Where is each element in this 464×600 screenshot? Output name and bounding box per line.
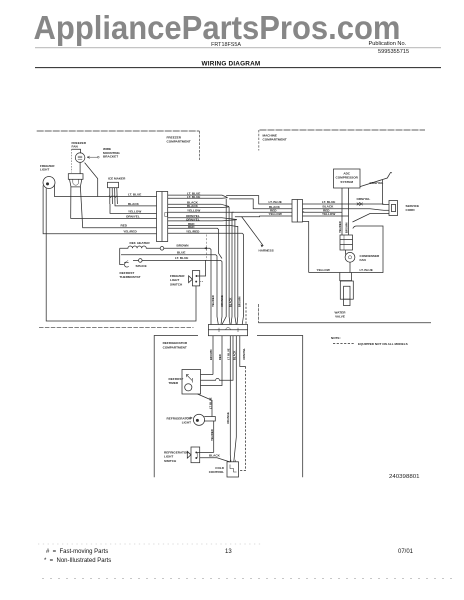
svg-text:FAN: FAN (72, 145, 79, 149)
svg-text:* = Non-Illustrated Parts: * = Non-Illustrated Parts (44, 558, 111, 564)
wire RED to machine bus (232, 211, 292, 213)
compressor motor / condenser fan circle (345, 252, 355, 262)
svg-text:240398801: 240398801 (389, 474, 420, 480)
wire ice maker to YELLOW row (110, 204, 157, 213)
svg-text:YEL/RED: YEL/RED (210, 429, 214, 441)
freezer light switch (192, 271, 199, 286)
refrigerator compartment box left part (154, 336, 198, 478)
machine bus connector J2 (292, 200, 303, 223)
wire water circuit drop jog (240, 336, 246, 367)
svg-text:CORD: CORD (406, 208, 416, 212)
wire ORN/YEL pair right of J1 (168, 218, 237, 220)
svg-text:COMPARTMENT: COMPARTMENT (167, 140, 191, 144)
wire freezer light switch loop left (46, 188, 196, 321)
svg-text:ADC: ADC (343, 171, 350, 175)
svg-text:YELLOW: YELLOW (317, 268, 330, 272)
footer faint scan line (42, 578, 452, 580)
wire YEL/RED right of J1 (168, 233, 243, 324)
machine compartment border left stub (258, 130, 260, 151)
svg-text:ORN/YEL: ORN/YEL (357, 197, 371, 201)
heading rule under WIRING DIAGRAM (35, 67, 441, 69)
svg-text:VALVE: VALVE (335, 315, 345, 319)
svg-text:NOTE:: NOTE: (331, 336, 341, 340)
svg-text:HARNESS: HARNESS (259, 249, 274, 253)
wire LT BLUE pair right of J1 (168, 195, 228, 197)
freezer border dashed fragment (206, 235, 208, 261)
compressor relay overload (340, 235, 353, 250)
compressor system box (334, 169, 361, 188)
wire RED pair right of J1 (168, 225, 238, 226)
svg-text:RED: RED (188, 225, 195, 229)
svg-text:RED: RED (218, 354, 222, 360)
wire bundle below J3: LT BLUE to timer (212, 336, 214, 375)
svg-text:COMPARTMENT: COMPARTMENT (263, 138, 287, 142)
wire BLACK pair right of J1 (168, 204, 229, 206)
harness leader arrow (242, 217, 264, 246)
refrigerator light leader arrow (186, 417, 192, 419)
svg-text:COMPRESSOR: COMPRESSOR (336, 176, 359, 180)
svg-text:ORN/YEL: ORN/YEL (126, 214, 140, 218)
splice circle on heater row (160, 247, 164, 251)
freezer fan shroud (71, 149, 73, 172)
freezer fan motor (75, 153, 85, 163)
svg-text:ORN/YEL: ORN/YEL (242, 348, 246, 360)
wire lamp to switch drop (213, 421, 215, 452)
wire step YELLOW to machine bus (235, 215, 292, 218)
svg-text:YEL/RED: YEL/RED (186, 230, 200, 234)
freezer compartment border bottom (39, 327, 194, 329)
svg-text:Publication No.: Publication No. (369, 41, 407, 47)
svg-text:BROWN: BROWN (344, 222, 348, 233)
cold control box (227, 462, 239, 477)
svg-text:LIGHT: LIGHT (182, 421, 191, 425)
svg-text:REFRIGERATOR: REFRIGERATOR (163, 341, 188, 345)
water valve feed step (340, 273, 352, 281)
svg-text:ORN/YEL: ORN/YEL (186, 217, 200, 221)
defrost thermostat symbol (124, 262, 128, 267)
svg-text:WIRING DIAGRAM: WIRING DIAGRAM (202, 60, 261, 67)
svg-text:THERMOSTAT: THERMOSTAT (120, 275, 141, 279)
wire bundle vertical harness strands (222, 199, 226, 325)
wire ORANGE drop (229, 336, 232, 462)
wire compressor box lead left (341, 188, 343, 235)
wire J2 to condenser box edge (303, 222, 309, 273)
svg-text:YELLOW: YELLOW (187, 209, 200, 213)
svg-text:BROWN: BROWN (209, 349, 213, 360)
svg-text:RED: RED (121, 224, 128, 228)
heater row arrowhead (204, 247, 207, 250)
header rule under model number (35, 47, 441, 49)
svg-text:YEL/RED: YEL/RED (338, 221, 342, 233)
svg-text:BLACK: BLACK (128, 202, 140, 206)
svg-text:BLACK: BLACK (209, 453, 221, 457)
note dashed sample (333, 343, 355, 345)
svg-text:ORANGE: ORANGE (226, 412, 230, 424)
svg-text:YEL/RED: YEL/RED (123, 230, 137, 234)
splice circle on LT BLUE row (139, 259, 143, 263)
svg-text:5995355715: 5995355715 (378, 49, 409, 55)
svg-text:EQUIPPED NOT ON ALL MODELS: EQUIPPED NOT ON ALL MODELS (358, 342, 408, 346)
wire timer low tap (201, 336, 223, 386)
defrost heater circuit: BROWN row with heating element (120, 246, 161, 248)
wire bus RED to compressor (303, 211, 343, 213)
svg-text:ICE MAKER: ICE MAKER (108, 177, 126, 181)
wire bracket to RED row (80, 187, 156, 228)
ice maker (108, 182, 119, 187)
wire step LT BLUE to machine bus (226, 196, 292, 204)
svg-text:LT. BLUE: LT. BLUE (227, 348, 231, 360)
wire compressor box lead right (348, 188, 350, 235)
svg-text:BLUE: BLUE (177, 250, 185, 254)
wire timer top tap (201, 374, 214, 376)
svg-text:BROWN: BROWN (237, 296, 241, 307)
svg-text:# = Fast-moving Parts: # = Fast-moving Parts (46, 549, 108, 555)
svg-text:COMPARTMENT: COMPARTMENT (163, 346, 187, 350)
svg-text:SPLICE: SPLICE (136, 264, 147, 268)
svg-text:LT. BLUE: LT. BLUE (360, 268, 373, 272)
splice symbol on LT BLUE (357, 202, 363, 205)
svg-text:FRT18FS5A: FRT18FS5A (211, 42, 241, 48)
svg-text:LT. BLUE: LT. BLUE (187, 195, 200, 199)
wire drop to cold control (234, 336, 237, 462)
wire timer bottom diagonal (198, 394, 213, 417)
svg-text:SWITCH: SWITCH (164, 459, 177, 463)
wire fan motor to bracket (79, 162, 81, 173)
svg-text:AppliancePartsPros.com: AppliancePartsPros.com (34, 9, 401, 46)
svg-text:YELLOW: YELLOW (128, 209, 141, 213)
wire step BLACK to machine bus (229, 199, 292, 209)
machine compartment border bottom (258, 322, 431, 324)
lower harness connector J3 (208, 325, 247, 336)
svg-text:DEF. HEATER: DEF. HEATER (130, 241, 151, 245)
svg-text:ORANGE: ORANGE (220, 295, 224, 307)
svg-text:LT. BLUE: LT. BLUE (175, 256, 188, 260)
svg-text:FAN: FAN (360, 258, 367, 262)
svg-text:07/01: 07/01 (398, 549, 414, 555)
svg-text:ORN/YEL: ORN/YEL (370, 181, 384, 185)
wire bracket to ORN/YEL row (71, 187, 157, 219)
machine compartment border top (260, 129, 426, 131)
wire BROWN row to harness (164, 248, 211, 324)
svg-text:TIMER: TIMER (169, 381, 179, 385)
svg-text:13: 13 (225, 549, 232, 555)
svg-text:YELLOW: YELLOW (269, 212, 282, 216)
wire relay to motor (345, 250, 347, 255)
fan mounting bracket (68, 174, 83, 180)
refrigerator light switch (191, 447, 200, 463)
defrost thermostat lead (120, 248, 124, 264)
wire lamp socket loop (204, 417, 215, 422)
faint scan artifact line above footer (38, 543, 262, 545)
wire dashed water circuit above connector (245, 303, 247, 325)
wire YELLOW right of J1 (168, 211, 234, 213)
wire freezer light to LT BLUE row (55, 185, 157, 197)
svg-text:CONTROL: CONTROL (209, 470, 224, 474)
svg-text:LT. BLUE: LT. BLUE (269, 200, 282, 204)
wire freezer light to YEL/RED row (43, 186, 156, 234)
freezer compartment border right stub (198, 131, 200, 160)
wire LT BLUE row to harness (142, 260, 222, 324)
wire timer mid tap with hop (201, 336, 234, 381)
wire bus YELLOW to compressor (303, 215, 349, 217)
wire LT BLUE row left stub (133, 259, 139, 261)
svg-text:BLACK: BLACK (229, 298, 233, 307)
freezer light (43, 177, 55, 189)
refrigerator light (193, 414, 204, 425)
wire light switch top lead (197, 260, 205, 276)
svg-text:SYSTEM: SYSTEM (340, 180, 353, 184)
wire bus BLACK right of J2 (303, 209, 384, 211)
wire motor to box bottom (349, 262, 351, 272)
wire dashed water circuit drop (239, 367, 246, 471)
wire bus LT BLUE right of J2 (303, 203, 384, 205)
svg-text:YELLOW: YELLOW (322, 212, 335, 216)
service cord plug (389, 201, 398, 216)
machine compartment border left lower stub (257, 304, 259, 323)
svg-text:BLACK: BLACK (187, 204, 199, 208)
wire lamp drop to switch upper terminal (197, 451, 213, 453)
svg-text:LT. BLUE: LT. BLUE (128, 192, 141, 196)
wire service cord lower lead (353, 214, 390, 223)
wire ice maker to BLACK row (115, 204, 157, 206)
defrost timer box (182, 370, 201, 395)
wire mounting bracket leader arrow (87, 156, 98, 158)
wire fan to LT BLUE row diagonal (85, 163, 98, 197)
wire valve right lead (351, 273, 353, 281)
water valve solenoid (340, 281, 353, 299)
wire BLUE row to harness (121, 255, 218, 325)
svg-text:YEL/RED: YEL/RED (211, 295, 215, 307)
wire service cord drop (382, 180, 385, 205)
svg-text:LT. BLUE: LT. BLUE (322, 200, 335, 204)
condenser inner box (309, 226, 383, 273)
svg-text:BROWN: BROWN (177, 244, 190, 248)
svg-text:BRACKET: BRACKET (103, 155, 118, 159)
svg-text:LIGHT: LIGHT (40, 168, 49, 172)
svg-text:LT. BLUE: LT. BLUE (208, 397, 212, 409)
wire ORN/YEL diagonal to service cord (360, 173, 392, 187)
freezer harness connector J1 (157, 192, 168, 242)
svg-text:BLACK: BLACK (233, 351, 237, 360)
refrigerator compartment box right part (257, 336, 303, 478)
svg-text:SWITCH: SWITCH (170, 282, 183, 286)
wire switch to cold control BLACK (200, 458, 231, 462)
freezer compartment border top (37, 130, 200, 132)
